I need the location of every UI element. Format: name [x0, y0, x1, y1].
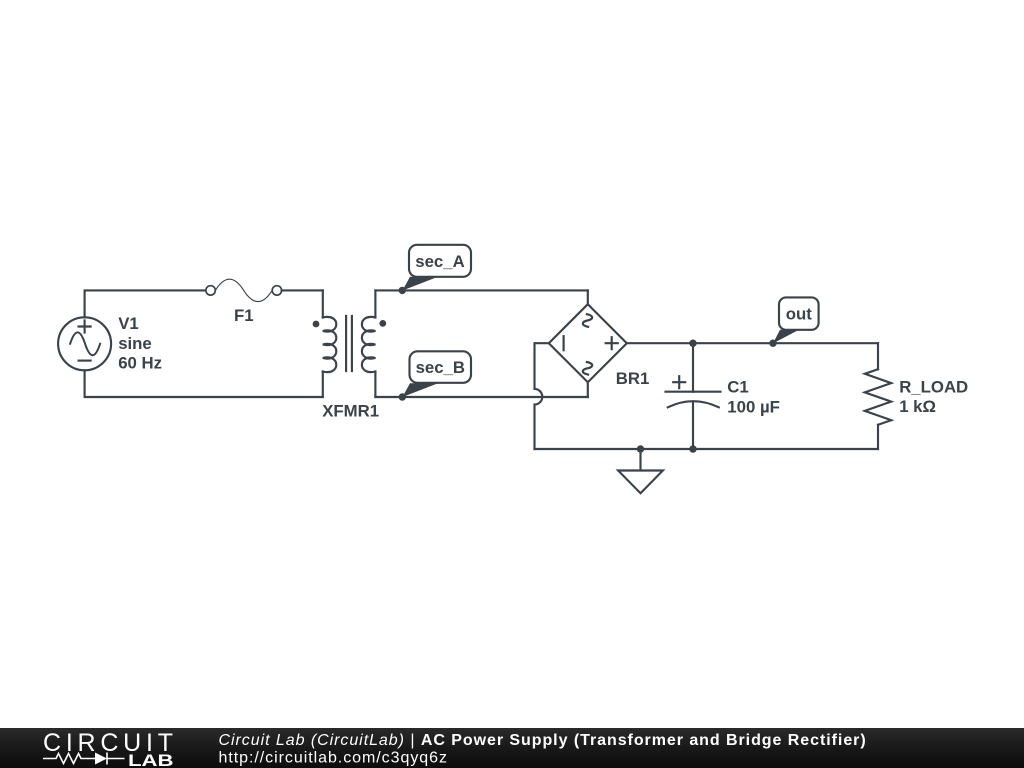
- node out: [769, 297, 818, 347]
- wire bridge left corner down with hop: [535, 343, 549, 449]
- wire output rail: [627, 342, 878, 344]
- footer bar: [0, 728, 1024, 768]
- junction dot cap top: [689, 340, 696, 347]
- svg-text:C1: C1: [727, 378, 748, 397]
- svg-text:F1: F1: [234, 306, 254, 325]
- fuse F1: [206, 279, 282, 301]
- svg-text:sine: sine: [118, 334, 152, 353]
- bridge rectifier BR1: [549, 290, 627, 397]
- svg-text:V1: V1: [118, 314, 139, 333]
- label V1 sine 60 Hz: [118, 314, 162, 373]
- footer title: [219, 732, 867, 767]
- voltage source V1: [58, 317, 111, 370]
- junction dot ground: [637, 445, 644, 452]
- label R_LOAD 1 kOhm: [899, 378, 968, 417]
- wire V1 top to fuse: [85, 290, 206, 317]
- resistor R_LOAD: [865, 343, 891, 449]
- svg-text:R_LOAD: R_LOAD: [899, 378, 968, 397]
- svg-text:out: out: [786, 304, 813, 323]
- label C1 100 uF: [727, 378, 780, 417]
- svg-text:BR1: BR1: [616, 369, 650, 388]
- logo schematic squiggle: [43, 753, 125, 765]
- wire bottom right rail: [535, 448, 879, 450]
- svg-text:Circuit Lab (CircuitLab) | AC: Circuit Lab (CircuitLab) | AC Power Supp…: [219, 732, 867, 749]
- wire fuse to transformer: [282, 289, 323, 291]
- wire secondary bottom rail: [375, 396, 587, 398]
- CircuitLab logo: [43, 729, 174, 768]
- svg-text:1 kΩ: 1 kΩ: [899, 397, 936, 416]
- svg-text:sec_A: sec_A: [415, 252, 464, 271]
- node sec_A: [399, 245, 471, 294]
- wire secondary top rail: [375, 289, 587, 291]
- svg-text:100 µF: 100 µF: [727, 398, 780, 417]
- svg-text:XFMR1: XFMR1: [322, 402, 379, 421]
- svg-text:LAB: LAB: [128, 751, 174, 768]
- ground: [618, 449, 663, 493]
- wire V1 bottom rail: [85, 370, 323, 397]
- capacitor C1: [666, 343, 721, 449]
- junction dot cap bottom: [689, 445, 696, 452]
- svg-text:http://circuitlab.com/c3qyq6z: http://circuitlab.com/c3qyq6z: [219, 750, 448, 767]
- svg-text:sec_B: sec_B: [416, 358, 465, 377]
- node sec_B: [399, 351, 471, 400]
- svg-text:60 Hz: 60 Hz: [118, 354, 162, 373]
- transformer XFMR1: [313, 290, 387, 397]
